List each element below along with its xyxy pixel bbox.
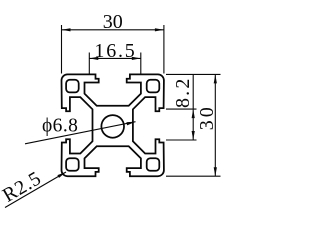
leader R2.5 (corner hole radius) bbox=[0, 167, 66, 207]
bottom-right corner screw hole bbox=[147, 158, 160, 171]
svg-text:16.5: 16.5 bbox=[94, 40, 136, 62]
top-left corner screw hole bbox=[66, 80, 79, 93]
dimension 30 (top width) bbox=[62, 11, 164, 74]
dimension 16.5 (slot cavity width) bbox=[89, 40, 141, 74]
dimension 8.2 (slot opening) bbox=[166, 74, 197, 140]
leader phi 6.8 (center bore) bbox=[25, 116, 136, 144]
svg-text:30: 30 bbox=[103, 11, 123, 33]
dimension 30 (right height) bbox=[166, 74, 221, 176]
center bore phi 6.8 bbox=[101, 115, 124, 138]
profile outline: 30x30 T-slot extrusion cross-section bbox=[62, 74, 164, 176]
svg-text:ϕ6.8: ϕ6.8 bbox=[42, 116, 78, 137]
bottom-left corner screw hole bbox=[66, 158, 79, 171]
svg-text:30: 30 bbox=[196, 104, 218, 130]
top-right corner screw hole bbox=[147, 80, 160, 93]
svg-text:8.2: 8.2 bbox=[172, 76, 194, 108]
